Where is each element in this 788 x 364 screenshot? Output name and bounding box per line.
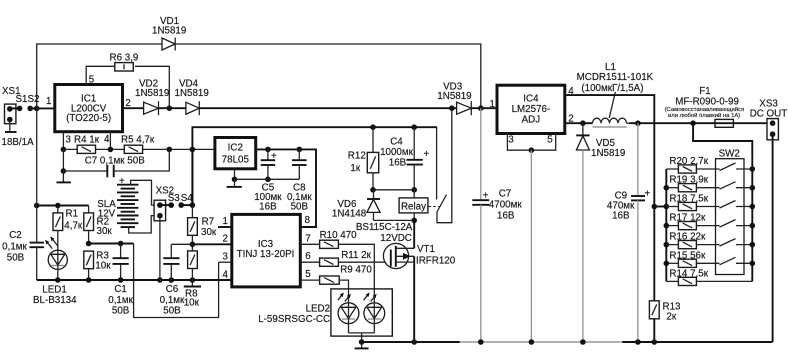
svg-text:R10 470: R10 470 [320, 230, 358, 241]
svg-text:MCDR1511-101K: MCDR1511-101K [577, 72, 654, 83]
svg-text:50В: 50В [163, 306, 181, 317]
svg-text:C2: C2 [9, 230, 22, 241]
svg-text:LM2576-: LM2576- [512, 104, 551, 115]
svg-text:1: 1 [223, 216, 228, 227]
svg-text:C7 0,1мк 50В: C7 0,1мк 50В [85, 155, 146, 166]
resistor R4 [74, 134, 100, 153]
resistor R3 [84, 251, 111, 281]
ground: IC2 [227, 179, 242, 187]
svg-text:1: 1 [46, 96, 51, 107]
svg-text:IC4: IC4 [523, 94, 539, 105]
wire: +5V rail from IC2 to IC3 pin8 [256, 147, 316, 227]
svg-text:BS115C-12A: BS115C-12A [356, 222, 413, 233]
capacitor C2 [2, 108, 44, 280]
capacitor C5 [254, 149, 282, 212]
wire: output row after L1 [629, 120, 715, 126]
svg-text:VT1: VT1 [417, 244, 435, 255]
resistor R7 [188, 205, 217, 238]
ground: LED2 [355, 339, 369, 348]
svg-text:R14 7,5к: R14 7,5к [669, 268, 708, 279]
svg-text:4,7к: 4,7к [64, 221, 83, 232]
svg-text:+: + [424, 149, 430, 160]
wire: +12V battery net vertical [192, 127, 437, 205]
wire: IC1 pin 5 to R6 [86, 66, 114, 85]
svg-text:LED2: LED2 [306, 304, 331, 315]
resistor R12 [348, 124, 379, 189]
IC4 LM2576 box [490, 85, 575, 145]
wire + node between VD2 and VD4 [159, 105, 186, 111]
resistor R1 [53, 206, 83, 232]
svg-text:4700мк: 4700мк [489, 200, 523, 211]
IC2 78L05 [215, 138, 256, 169]
svg-text:R19 3,9к: R19 3,9к [669, 175, 708, 186]
wire: IC2 ground rail [232, 169, 300, 182]
svg-text:18В/1А: 18В/1А [2, 137, 35, 148]
IC3 TINJ box [232, 214, 300, 287]
svg-text:R15 56к: R15 56к [669, 250, 706, 261]
svg-text:R17 12к: R17 12к [669, 213, 706, 224]
svg-text:C7: C7 [499, 189, 512, 200]
wire: XS2 lower pin to ground rail [159, 216, 161, 280]
resistor R17 + switch row 4 [664, 213, 756, 230]
svg-text:10к: 10к [184, 297, 200, 308]
svg-text:R16 22к: R16 22к [669, 232, 706, 243]
diode VD1 [152, 16, 186, 51]
svg-text:R12: R12 [348, 151, 366, 162]
LED2 dual LED block [258, 289, 392, 342]
wire: bottom ground rail [362, 339, 773, 345]
svg-text:8: 8 [305, 215, 311, 226]
svg-text:2: 2 [125, 98, 130, 109]
wire: XS2 S3 S4 contacts [160, 202, 195, 208]
svg-text:78L05: 78L05 [222, 155, 250, 166]
resistor R18 + switch row 3 [666, 194, 755, 211]
diode VD2 [135, 79, 169, 116]
svg-text:или любой плавкий на 1А): или любой плавкий на 1А) [668, 112, 740, 119]
svg-text:12V: 12V [98, 209, 116, 220]
svg-text:5: 5 [305, 269, 311, 280]
svg-text:C4: C4 [390, 137, 403, 148]
ground: XS1 lower pin [2, 120, 35, 149]
connector XS3 DC OUT [750, 99, 788, 140]
svg-text:TINJ 13-20PI: TINJ 13-20PI [237, 249, 295, 260]
svg-text:IC2: IC2 [228, 143, 243, 154]
svg-text:C1: C1 [114, 284, 127, 295]
node: R7/R8 junction to IC3 pin2 [190, 235, 232, 251]
wire: SW2 right bus jog to output [693, 123, 752, 281]
wire: battery minus to XS2 [129, 216, 157, 233]
svg-text:C6: C6 [166, 284, 179, 295]
svg-text:16В: 16В [389, 158, 407, 169]
svg-text:3: 3 [223, 252, 229, 263]
wire: IC4 pin4 feedback path [565, 95, 657, 301]
svg-text:0,1мк: 0,1мк [2, 242, 27, 253]
wire: IC3 pin3 [219, 252, 232, 263]
svg-text:0,1мк: 0,1мк [160, 295, 185, 306]
resistor R19 + switch row 2 [664, 175, 756, 192]
capacitor C6 [160, 244, 193, 316]
wire: IC4 pin2 output row [565, 120, 589, 126]
svg-text:50В: 50В [291, 202, 309, 213]
svg-text:R5 4,7к: R5 4,7к [121, 134, 155, 145]
relay contact SW [429, 108, 452, 223]
switch block SW2 frame [716, 149, 745, 275]
svg-text:+: + [271, 151, 277, 162]
ground: IC1 pin3 node [57, 171, 71, 182]
svg-text:3: 3 [66, 135, 72, 146]
svg-text:0,1мк: 0,1мк [108, 295, 133, 306]
svg-text:16В: 16В [259, 202, 277, 213]
svg-text:+: + [645, 189, 651, 200]
wire: left +18V rail [34, 203, 89, 209]
svg-text:(Самовосстанавливающийся: (Самовосстанавливающийся [665, 106, 745, 113]
svg-text:R7: R7 [202, 217, 215, 228]
wire: VT1 drain up / source down [413, 220, 415, 342]
svg-text:Relay: Relay [401, 202, 426, 213]
capacitor C1 [108, 244, 133, 317]
svg-text:1N5819: 1N5819 [135, 88, 169, 99]
svg-text:IRFR120: IRFR120 [416, 256, 456, 267]
op-amp IC1 regulator box [55, 85, 123, 132]
svg-text:30к: 30к [201, 227, 217, 238]
wire: IC3 pin1 stub [218, 216, 232, 227]
wire: left ground rail [37, 277, 232, 283]
inductor L1 [577, 62, 654, 127]
wire: XS1 to IC1 pin 1 [10, 96, 55, 111]
fuse F1 [665, 86, 767, 127]
svg-text:5: 5 [89, 75, 95, 86]
svg-text:BL-B3134: BL-B3134 [33, 295, 77, 306]
resistor R13 [649, 301, 681, 342]
svg-text:2: 2 [223, 234, 228, 245]
svg-text:1N5819: 1N5819 [152, 26, 186, 37]
resistor R14 row 7 [666, 268, 752, 285]
resistor R10 [300, 230, 374, 289]
svg-text:R6 3,9: R6 3,9 [110, 53, 139, 64]
wire: IC1 pin 3 stub [63, 132, 71, 150]
ground: R8 bottom / rail ground [184, 280, 201, 287]
wire: rail junction to XS2 node [191, 149, 193, 205]
svg-text:12VDC: 12VDC [380, 233, 412, 244]
wire: R6 to VD2 cathode node [135, 66, 169, 108]
resistor R6 [110, 53, 139, 72]
svg-text:R20 2,7к: R20 2,7к [669, 156, 708, 167]
svg-text:(TO220-5): (TO220-5) [66, 113, 111, 124]
svg-text:1N4148: 1N4148 [332, 209, 367, 220]
wire: VD6/relay bottom tie [374, 218, 418, 224]
svg-text:10к: 10к [95, 261, 111, 272]
svg-text:4: 4 [223, 270, 229, 281]
wire: R12/C4 bottom tie [370, 187, 417, 193]
svg-text:1N5819: 1N5819 [591, 148, 625, 159]
wire: FB tap to ladder [654, 204, 669, 210]
svg-text:1N5819: 1N5819 [175, 88, 209, 99]
capacitor C9 [607, 123, 651, 342]
svg-text:S3: S3 [168, 193, 181, 204]
wire: top bypass rail [37, 44, 481, 108]
svg-text:5: 5 [547, 135, 553, 146]
diode VD4 [175, 79, 209, 116]
transistor VT1 IRFR120 [383, 243, 455, 268]
resistor R8 [184, 251, 200, 308]
svg-text:1000мк: 1000мк [380, 147, 414, 158]
battery SLA [97, 176, 138, 227]
svg-text:R4 1к: R4 1к [74, 134, 100, 145]
resistor R15 + switch row 6 [664, 250, 756, 267]
wire: ladder left bus [665, 169, 667, 281]
svg-text:(100мкГ/1,5А): (100мкГ/1,5А) [581, 83, 643, 94]
svg-text:2к: 2к [666, 312, 676, 323]
svg-text:ADJ: ADJ [522, 115, 541, 126]
svg-text:6: 6 [305, 251, 311, 262]
svg-text:LED1: LED1 [42, 285, 67, 296]
svg-text:R11 2к: R11 2к [341, 250, 371, 261]
svg-text:R1: R1 [66, 209, 79, 220]
resistor R5 [121, 134, 155, 153]
svg-text:30к: 30к [97, 226, 113, 237]
svg-text:R18 7,5к: R18 7,5к [669, 194, 708, 205]
connector XS2 [154, 186, 193, 221]
resistor R2 [84, 206, 113, 244]
svg-text:3: 3 [508, 135, 514, 146]
capacitor C4 [380, 124, 429, 189]
svg-text:16В: 16В [497, 211, 515, 222]
svg-text:MF-R090-0-99: MF-R090-0-99 [675, 97, 739, 108]
wire: VD4 to VD3 [199, 107, 456, 109]
svg-text:S1S2: S1S2 [16, 94, 40, 105]
svg-text:7: 7 [305, 234, 310, 245]
wire: R2/R3 divider sense to IC3 pin3 [86, 241, 219, 318]
svg-text:50В: 50В [112, 306, 130, 317]
svg-text:L-59SRSGC-CC: L-59SRSGC-CC [258, 314, 330, 325]
svg-text:F1: F1 [699, 86, 710, 97]
svg-text:4: 4 [104, 134, 110, 145]
wire: XS3 lower pin to bottom rail [772, 134, 774, 342]
capacitor C7 4700mk [472, 108, 522, 342]
diode VD5 [576, 123, 625, 342]
wire: IC1 pin 2 output [123, 98, 144, 109]
svg-text:1к: 1к [350, 163, 360, 174]
diode VD3 [437, 82, 497, 116]
svg-text:1: 1 [490, 99, 495, 110]
wire: R4/R5 rail [61, 147, 215, 153]
capacitor C8 [287, 149, 312, 212]
svg-text:SW2: SW2 [719, 149, 740, 160]
svg-text:16В: 16В [612, 211, 630, 222]
resistor R16 + switch row 5 [664, 232, 756, 249]
capacitor C7 0,1mk [61, 149, 170, 177]
svg-text:S4: S4 [181, 193, 194, 204]
resistor R11 [300, 250, 391, 266]
resistor R20 + switch row 1 [666, 156, 755, 173]
wire: IC4 pins 3,5 bracket to ground [507, 134, 555, 343]
relay coil box [356, 190, 428, 244]
svg-text:1N5819: 1N5819 [437, 91, 471, 102]
svg-text:R9 470: R9 470 [340, 265, 372, 276]
diode VD6 [332, 190, 380, 221]
LED LED1 [33, 231, 77, 307]
wire: IC1 pin 4 stub [104, 132, 110, 150]
connector XS1 [2, 86, 39, 124]
svg-text:50В: 50В [7, 253, 25, 264]
resistor R9 [300, 265, 372, 289]
svg-text:DC OUT: DC OUT [750, 109, 788, 120]
wire: battery plus to XS2 [131, 180, 157, 205]
